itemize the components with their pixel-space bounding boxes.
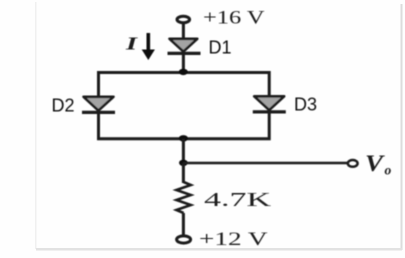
svg-text:D2: D2 xyxy=(52,96,75,116)
node junction bottom rail xyxy=(179,135,188,141)
svg-text:D3: D3 xyxy=(294,95,317,115)
label +12 V xyxy=(199,229,268,250)
label D1 xyxy=(209,38,232,58)
svg-text:4.7K: 4.7K xyxy=(204,189,272,211)
terminal +12V xyxy=(177,236,191,243)
svg-text:+12 V: +12 V xyxy=(199,229,268,250)
terminal Vo xyxy=(348,160,358,167)
svg-text:D1: D1 xyxy=(209,38,232,58)
svg-text:+16 V: +16 V xyxy=(203,7,265,28)
wire bottom rail xyxy=(99,110,270,139)
wire terminal to D1 anode xyxy=(182,24,185,39)
label D2 xyxy=(52,96,75,116)
label D3 xyxy=(294,95,317,115)
svg-text:V: V xyxy=(365,151,385,176)
label I (current) xyxy=(124,34,139,54)
label 4.7K xyxy=(204,189,272,211)
diode D2 xyxy=(82,97,115,113)
node junction top xyxy=(179,69,188,75)
terminal +16V xyxy=(177,16,190,22)
wire rail to Vo node xyxy=(182,139,185,163)
svg-text:o: o xyxy=(385,163,392,178)
label +16 V xyxy=(203,7,265,28)
diode D1 xyxy=(168,39,201,54)
node Vo junction xyxy=(179,160,188,166)
wire to output terminal xyxy=(183,162,347,165)
resistor 4.7K xyxy=(176,182,190,213)
label Vo xyxy=(365,151,392,178)
wire top rail xyxy=(99,73,270,140)
wire D1 cathode to top rail xyxy=(182,53,185,72)
diode D3 xyxy=(253,96,286,112)
wire resistor to +12V terminal xyxy=(182,213,185,235)
current arrow xyxy=(142,33,155,60)
wire node to resistor xyxy=(182,163,185,183)
svg-text:I: I xyxy=(124,34,139,54)
